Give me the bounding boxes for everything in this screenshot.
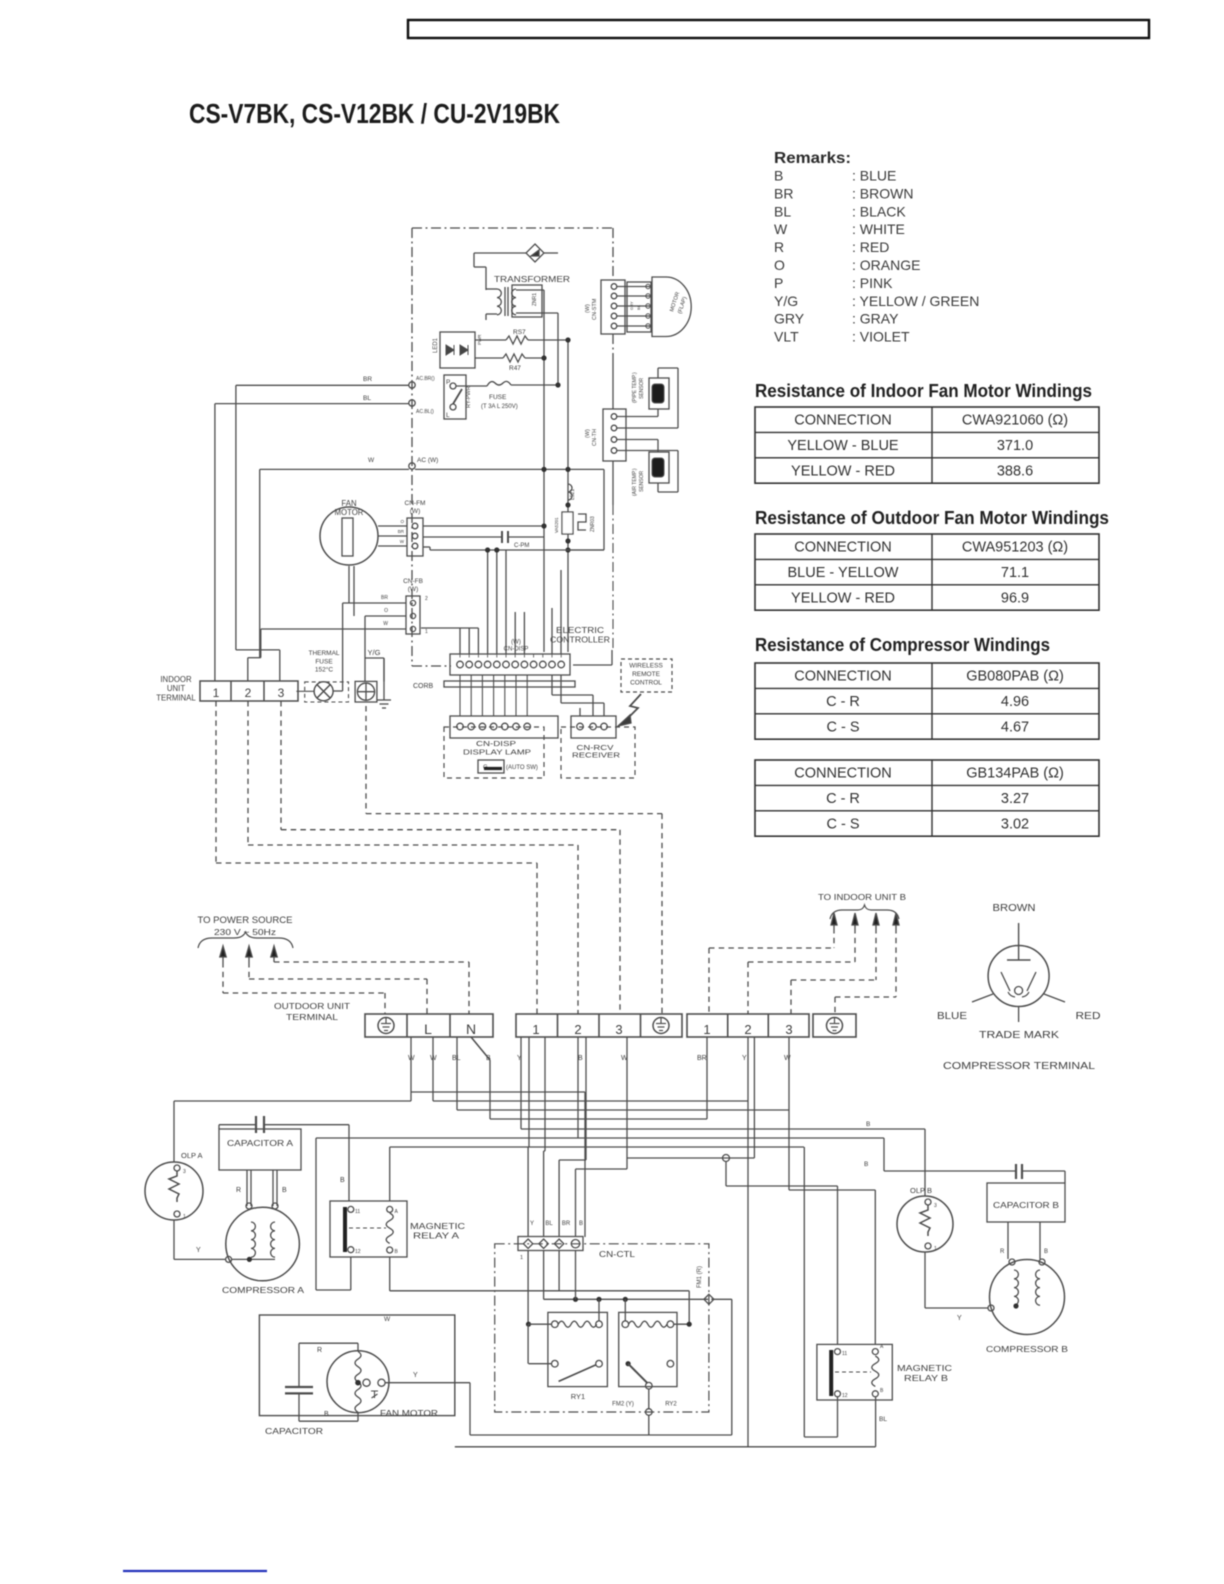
svg-text:TRADE MARK: TRADE MARK: [979, 1030, 1059, 1041]
svg-text:W: W: [774, 221, 788, 237]
svg-text:FUSE: FUSE: [489, 394, 507, 401]
svg-text:Y: Y: [957, 1315, 962, 1322]
svg-text:3.27: 3.27: [1001, 791, 1029, 807]
svg-text:CS-V7BK, CS-V12BK / CU-2V19BK: CS-V7BK, CS-V12BK / CU-2V19BK: [189, 98, 560, 129]
svg-text:1: 1: [934, 1246, 937, 1252]
svg-text:Y/G: Y/G: [774, 293, 798, 309]
svg-text:L: L: [446, 412, 450, 419]
svg-text:B: B: [324, 1411, 329, 1418]
svg-text:YELLOW - RED: YELLOW - RED: [791, 590, 895, 606]
svg-text:: WHITE: : WHITE: [852, 221, 905, 237]
svg-text:B: B: [578, 1055, 583, 1062]
svg-text:Remarks:: Remarks:: [774, 150, 851, 167]
svg-text:11: 11: [355, 1209, 360, 1215]
svg-text:R: R: [236, 1187, 241, 1194]
svg-text:L521: L521: [570, 489, 576, 500]
svg-text:CAPACITOR: CAPACITOR: [265, 1426, 323, 1436]
svg-text:Y/G: Y/G: [368, 648, 381, 657]
svg-text:AC.BL(): AC.BL(): [416, 409, 434, 415]
svg-text:388.6: 388.6: [997, 463, 1033, 479]
svg-text:DISPLAY LAMP: DISPLAY LAMP: [463, 748, 531, 757]
svg-text:R: R: [317, 1347, 322, 1354]
svg-text:Resistance of Compressor Windi: Resistance of Compressor Windings: [755, 635, 1050, 655]
svg-text:3: 3: [183, 1169, 186, 1175]
svg-text:(W): (W): [408, 586, 418, 593]
svg-text:BR: BR: [381, 595, 388, 601]
svg-text:3: 3: [278, 686, 285, 700]
svg-text:: BROWN: : BROWN: [852, 185, 913, 201]
svg-text:(W): (W): [585, 304, 591, 313]
svg-text:A: A: [395, 1209, 399, 1215]
svg-text:BLUE: BLUE: [937, 1011, 967, 1022]
svg-text:W: W: [784, 1055, 791, 1062]
svg-text:3: 3: [934, 1203, 937, 1209]
svg-text:OLP A: OLP A: [181, 1151, 203, 1160]
svg-text:3.02: 3.02: [1001, 816, 1029, 832]
svg-text:CONTROLLER: CONTROLLER: [550, 636, 610, 645]
svg-text:INDOOR: INDOOR: [160, 675, 192, 684]
svg-text:RY-PWR: RY-PWR: [466, 386, 472, 408]
svg-text:R: R: [1000, 1249, 1005, 1255]
svg-text:UNIT: UNIT: [167, 684, 185, 693]
svg-text:96.9: 96.9: [1001, 590, 1029, 606]
svg-text:OUTDOOR UNIT: OUTDOOR UNIT: [274, 1001, 350, 1011]
svg-text:RS7: RS7: [513, 329, 526, 336]
svg-text:1: 1: [425, 629, 428, 635]
svg-text:Y: Y: [196, 1247, 201, 1254]
svg-text:BR: BR: [398, 529, 405, 534]
svg-text:2: 2: [425, 596, 428, 602]
svg-text:1: 1: [703, 1022, 710, 1037]
svg-text:CONNECTION: CONNECTION: [794, 413, 891, 429]
svg-text:CWA921060 (Ω): CWA921060 (Ω): [962, 413, 1068, 429]
svg-text:FM2 (Y): FM2 (Y): [612, 1402, 634, 1408]
svg-text:Y: Y: [742, 1055, 747, 1062]
svg-text:1: 1: [520, 1255, 523, 1261]
svg-text:CWA951203 (Ω): CWA951203 (Ω): [962, 540, 1068, 556]
svg-text:BL: BL: [636, 304, 641, 310]
svg-text:Resistance of Indoor Fan Motor: Resistance of Indoor Fan Motor Windings: [755, 381, 1092, 401]
svg-text:4.67: 4.67: [1001, 719, 1029, 735]
svg-text:RECEIVER: RECEIVER: [572, 751, 621, 760]
svg-text:ELECTRIC: ELECTRIC: [556, 626, 604, 635]
svg-text:FUSE: FUSE: [315, 659, 333, 666]
svg-text:(T 3A L 250V): (T 3A L 250V): [481, 404, 518, 410]
svg-text:FM1 (R): FM1 (R): [697, 1266, 703, 1288]
svg-text:B: B: [340, 1177, 345, 1184]
svg-text:MAGNETIC: MAGNETIC: [410, 1221, 465, 1231]
svg-text:ZNR1: ZNR1: [532, 293, 538, 306]
svg-text:COMPRESSOR B: COMPRESSOR B: [986, 1344, 1068, 1354]
svg-text:TO INDOOR UNIT B: TO INDOOR UNIT B: [818, 892, 906, 902]
svg-text:CONNECTION: CONNECTION: [794, 540, 891, 556]
svg-text:COMPRESSOR A: COMPRESSOR A: [222, 1285, 304, 1295]
svg-text:B: B: [282, 1187, 287, 1194]
svg-text:BR: BR: [697, 1055, 707, 1062]
svg-text:VLT: VLT: [774, 329, 799, 345]
svg-text:CN-FM: CN-FM: [405, 500, 426, 507]
svg-text:371.0: 371.0: [997, 438, 1033, 454]
svg-text:: BLACK: : BLACK: [852, 203, 906, 219]
svg-text:Y: Y: [530, 1221, 534, 1227]
svg-text:R: R: [774, 239, 784, 255]
svg-text:: YELLOW / GREEN: : YELLOW / GREEN: [852, 293, 979, 309]
svg-text:Y: Y: [413, 1372, 418, 1379]
svg-text:B: B: [866, 1121, 870, 1128]
svg-text:CORB: CORB: [413, 683, 434, 690]
svg-text:B: B: [579, 1221, 583, 1227]
svg-text:B: B: [774, 168, 783, 184]
svg-text:GRY: GRY: [629, 301, 634, 310]
svg-text:: BLUE: : BLUE: [852, 168, 896, 184]
svg-text:(W): (W): [511, 640, 521, 646]
svg-text:N: N: [466, 1021, 476, 1037]
svg-text:CN-TH: CN-TH: [592, 429, 598, 446]
svg-text:2: 2: [574, 1022, 581, 1037]
svg-text:2: 2: [245, 686, 252, 700]
svg-text:C - R: C - R: [826, 791, 860, 807]
svg-text:BR: BR: [774, 185, 793, 201]
svg-text:: ORANGE: : ORANGE: [852, 257, 920, 273]
svg-text:152°C: 152°C: [315, 666, 333, 674]
svg-text:BL: BL: [879, 1416, 887, 1423]
svg-text:CAPACITOR A: CAPACITOR A: [227, 1139, 294, 1148]
svg-text:W: W: [383, 621, 388, 627]
svg-text:GRY: GRY: [774, 311, 805, 327]
svg-text:RELAY A: RELAY A: [413, 1231, 459, 1241]
svg-text:CN-FB: CN-FB: [403, 578, 423, 585]
svg-text:71.1: 71.1: [1001, 565, 1029, 581]
svg-text:R47: R47: [509, 365, 521, 372]
svg-text:OLP B: OLP B: [910, 1186, 932, 1195]
svg-text:TRANSFORMER: TRANSFORMER: [494, 274, 570, 284]
svg-text:(PIPE TEMP.): (PIPE TEMP.): [632, 372, 638, 403]
svg-text:THERMAL: THERMAL: [308, 650, 339, 657]
svg-text:COMPRESSOR TERMINAL: COMPRESSOR TERMINAL: [943, 1061, 1096, 1072]
svg-text:P: P: [446, 379, 450, 386]
svg-text:CN-STM: CN-STM: [592, 298, 598, 320]
svg-text:YELLOW - BLUE: YELLOW - BLUE: [787, 438, 899, 454]
svg-text:1: 1: [183, 1214, 186, 1220]
svg-text:RELAY B: RELAY B: [904, 1373, 948, 1383]
svg-text:3: 3: [615, 1022, 622, 1037]
svg-text:4.96: 4.96: [1001, 694, 1029, 710]
svg-text:B: B: [864, 1161, 868, 1168]
svg-text:W: W: [368, 457, 375, 464]
svg-text:GB134PAB (Ω): GB134PAB (Ω): [966, 766, 1064, 782]
svg-text:TERMINAL: TERMINAL: [156, 694, 196, 703]
svg-text:(W): (W): [585, 429, 591, 438]
svg-text:VA5201: VA5201: [554, 517, 559, 533]
svg-text:WIRELESS: WIRELESS: [629, 663, 663, 670]
svg-text:RY1: RY1: [571, 1392, 585, 1401]
svg-text:CONNECTION: CONNECTION: [794, 669, 891, 685]
svg-text:O: O: [400, 519, 404, 524]
svg-text:C - S: C - S: [826, 719, 859, 735]
svg-text:BR: BR: [562, 1221, 571, 1227]
svg-text:BROWN: BROWN: [993, 903, 1036, 914]
svg-text:MAGNETIC: MAGNETIC: [897, 1363, 952, 1373]
svg-text:B: B: [880, 1388, 884, 1394]
svg-text:B: B: [395, 1249, 399, 1255]
svg-text:1: 1: [532, 1022, 539, 1037]
svg-text:P: P: [774, 275, 783, 291]
svg-text:TERMINAL: TERMINAL: [286, 1012, 338, 1022]
svg-text:12: 12: [355, 1249, 361, 1255]
svg-text:RED: RED: [1076, 1011, 1101, 1022]
svg-text:BL: BL: [363, 395, 371, 402]
svg-text:O: O: [774, 257, 785, 273]
svg-text:REMOTE: REMOTE: [632, 671, 660, 678]
svg-text:BR: BR: [363, 376, 372, 383]
svg-text:CN-CTL: CN-CTL: [599, 1250, 636, 1259]
svg-text:AC (W): AC (W): [417, 457, 438, 464]
svg-text:CONTROL: CONTROL: [630, 680, 662, 687]
svg-text:C-PM: C-PM: [514, 543, 529, 549]
svg-text:TO POWER SOURCE: TO POWER SOURCE: [198, 915, 293, 925]
svg-text:O: O: [384, 608, 388, 614]
svg-text:AC.BR(): AC.BR(): [416, 376, 435, 382]
svg-text:1: 1: [213, 686, 220, 700]
svg-text:3: 3: [785, 1022, 792, 1037]
svg-text:: VIOLET: : VIOLET: [852, 329, 910, 345]
svg-text:W: W: [384, 1316, 391, 1323]
svg-text:BLUE - YELLOW: BLUE - YELLOW: [788, 565, 899, 581]
svg-text:(W): (W): [410, 508, 420, 515]
svg-text:2: 2: [744, 1022, 751, 1037]
svg-text:BL: BL: [774, 203, 791, 219]
svg-text:(AUTO SW): (AUTO SW): [506, 765, 538, 771]
svg-text:C - R: C - R: [826, 694, 860, 710]
svg-text:C - S: C - S: [826, 816, 859, 832]
svg-text:12: 12: [842, 1393, 848, 1399]
svg-text:Resistance of Outdoor Fan Moto: Resistance of Outdoor Fan Motor Windings: [755, 508, 1109, 528]
svg-text:GB080PAB (Ω): GB080PAB (Ω): [966, 669, 1064, 685]
svg-text:: GRAY: : GRAY: [852, 311, 899, 327]
svg-text:SENSOR: SENSOR: [639, 377, 645, 399]
svg-text:BL: BL: [452, 1055, 461, 1062]
svg-text:CAPACITOR B: CAPACITOR B: [993, 1201, 1059, 1210]
svg-text:: RED: : RED: [852, 239, 889, 255]
svg-text:(AIR TEMP.): (AIR TEMP.): [632, 468, 638, 496]
svg-text:LED1: LED1: [433, 337, 439, 353]
svg-text:11: 11: [842, 1351, 847, 1357]
svg-text:B: B: [1044, 1249, 1048, 1255]
svg-text:BL: BL: [545, 1221, 553, 1227]
svg-text:W: W: [400, 539, 405, 544]
svg-text:SENSOR: SENSOR: [639, 470, 645, 492]
svg-text:ZNR03: ZNR03: [590, 516, 596, 532]
svg-text:FAN MOTOR: FAN MOTOR: [380, 1408, 438, 1418]
svg-text:CONNECTION: CONNECTION: [794, 766, 891, 782]
svg-text:L: L: [424, 1021, 432, 1037]
svg-text:: PINK: : PINK: [852, 275, 893, 291]
svg-text:RY2: RY2: [665, 1402, 677, 1408]
svg-text:YELLOW - RED: YELLOW - RED: [791, 463, 895, 479]
